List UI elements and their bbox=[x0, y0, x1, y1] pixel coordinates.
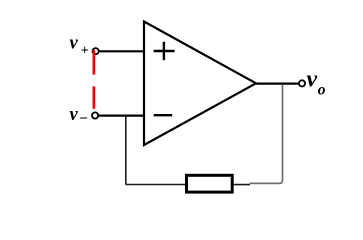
svg-text:o: o bbox=[318, 82, 326, 99]
terminal vo (open circle) bbox=[299, 80, 305, 86]
terminal v- (open circle) bbox=[92, 112, 98, 118]
svg-text:v: v bbox=[307, 66, 318, 92]
wire: v+ terminal to op-amp + input bbox=[96, 50, 144, 52]
op-amp inverting input marker (-) bbox=[154, 114, 173, 116]
op-amp non-inverting input marker (+) bbox=[154, 42, 175, 60]
svg-text:v: v bbox=[70, 105, 79, 125]
wire: feedback bottom left horizontal to resistor bbox=[126, 184, 186, 186]
wire: gray feedback return from output node bbox=[250, 85, 283, 184]
svg-text:−: − bbox=[79, 111, 88, 127]
svg-text:+: + bbox=[81, 43, 89, 58]
resistor (feedback) bbox=[187, 175, 233, 192]
red dashed line between v+ and v- (virtual short) bbox=[93, 50, 96, 109]
op-amp U1 triangle body bbox=[144, 22, 256, 146]
wire: resistor right lead bbox=[234, 184, 250, 186]
wire: v- terminal to op-amp - input bbox=[95, 114, 144, 116]
label vo bbox=[307, 66, 326, 98]
wire: op-amp output to vo terminal bbox=[256, 82, 299, 84]
label v+ bbox=[70, 33, 89, 58]
label v- bbox=[70, 105, 88, 127]
terminal v+ (open circle) bbox=[93, 48, 99, 54]
wire: feedback branch down from v- input node bbox=[125, 116, 127, 185]
svg-text:v: v bbox=[70, 33, 79, 53]
